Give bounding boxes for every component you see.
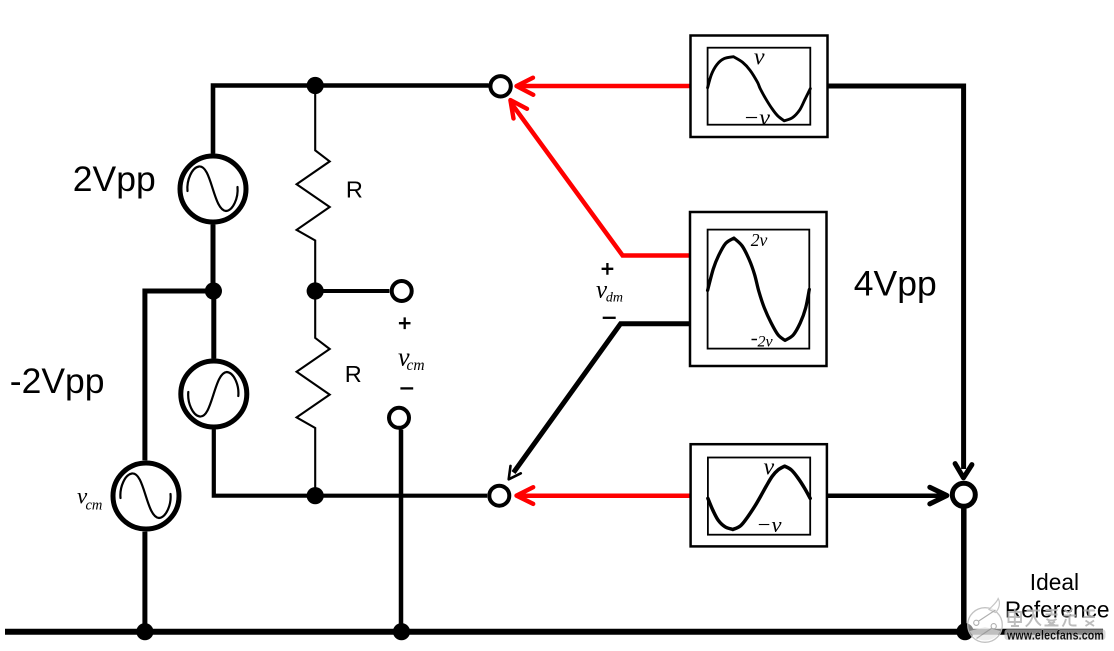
svg-text:www.elecfans.com: www.elecfans.com xyxy=(1006,627,1104,642)
svg-text:−v: −v xyxy=(743,105,770,131)
svg-text:v: v xyxy=(764,455,775,481)
svg-text:2v: 2v xyxy=(751,230,768,250)
svg-text:v: v xyxy=(754,44,765,70)
svg-text:-2Vpp: -2Vpp xyxy=(10,361,105,401)
svg-text:cm: cm xyxy=(86,497,103,513)
svg-text:4Vpp: 4Vpp xyxy=(854,263,937,303)
svg-text:−v: −v xyxy=(756,512,781,537)
svg-text:R: R xyxy=(346,176,363,202)
svg-text:R: R xyxy=(345,361,362,387)
svg-text:cm: cm xyxy=(407,357,425,374)
svg-text:Ideal: Ideal xyxy=(1030,569,1079,595)
svg-text:2Vpp: 2Vpp xyxy=(73,159,156,199)
svg-text:dm: dm xyxy=(606,291,623,306)
svg-text:2v: 2v xyxy=(758,334,774,351)
